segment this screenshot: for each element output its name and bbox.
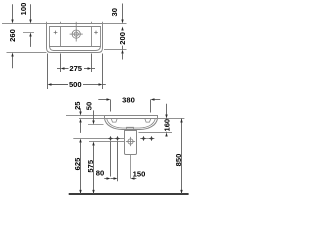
left overflow mark under deck xyxy=(111,119,117,123)
svg-text:50: 50 xyxy=(85,102,94,110)
mounting hole line right xyxy=(140,138,155,140)
svg-text:200: 200 xyxy=(118,32,127,45)
svg-text:500: 500 xyxy=(69,80,82,89)
dim 25 / 625 line (x=80.5) xyxy=(79,108,81,194)
deck-bottom extension line right xyxy=(158,118,185,120)
svg-text:160: 160 xyxy=(162,119,171,132)
basin-front extension line left xyxy=(7,52,47,54)
dim 100 line (x=30.5) xyxy=(29,4,31,47)
siphon cover / pedestal xyxy=(125,131,137,155)
dim 275 xyxy=(57,54,95,73)
mounting hole line left xyxy=(73,138,124,140)
rim-50 extension line left xyxy=(88,124,104,126)
tap hole crosshair (plan) xyxy=(70,22,83,42)
svg-text:25: 25 xyxy=(73,101,82,110)
divider tick marks above rim xyxy=(60,22,62,24)
mounting hole marks (4 crosses) xyxy=(108,136,153,140)
deck divider left xyxy=(60,27,62,47)
drain collar xyxy=(127,127,134,130)
deck divider right xyxy=(91,27,93,47)
deck slab (front) xyxy=(105,116,158,119)
tap-level extension line xyxy=(23,32,34,34)
svg-text:575: 575 xyxy=(86,159,95,172)
deck-top extension line left xyxy=(66,115,105,117)
right overflow mark under deck xyxy=(145,119,151,123)
dim 260 line (x=12.5) xyxy=(11,4,13,68)
dim 850 (x=181.5) xyxy=(180,119,182,194)
svg-text:80: 80 xyxy=(96,168,104,177)
basin outer rim (plan) xyxy=(47,24,103,53)
svg-text:275: 275 xyxy=(69,64,82,73)
siphon crosshair (front) xyxy=(126,137,135,146)
basin inner deck line (plan) xyxy=(50,27,101,47)
dim 80 / 150 row (y=178.5) xyxy=(104,142,136,182)
wall extension line left xyxy=(2,23,47,25)
deck-bottom extension line left xyxy=(79,118,105,120)
wall extension line right xyxy=(103,23,127,25)
svg-text:380: 380 xyxy=(122,96,135,105)
siphon centre extension line left xyxy=(89,141,125,143)
160 reference line right xyxy=(139,132,173,134)
basin rim inner front line (plan) xyxy=(50,46,101,51)
svg-text:260: 260 xyxy=(8,29,17,42)
dim 500 xyxy=(48,54,106,90)
dim 30 / 200 line (x=122.5) xyxy=(121,4,123,60)
drain center line below pedestal xyxy=(130,155,132,179)
right fixing cross (plan) xyxy=(94,31,98,35)
bowl outer curve xyxy=(105,119,158,130)
svg-text:850: 850 xyxy=(174,154,183,167)
bowl inner curve xyxy=(107,119,156,129)
svg-text:100: 100 xyxy=(19,3,28,16)
dim 160 (x=165.5) xyxy=(165,104,167,137)
left fixing cross (plan) xyxy=(54,31,58,35)
bowl-front extension line right xyxy=(104,49,127,51)
floor line xyxy=(69,193,189,195)
dim 50 / 575 line (x=93.5) xyxy=(92,110,94,193)
svg-text:150: 150 xyxy=(133,170,146,179)
svg-text:625: 625 xyxy=(73,157,82,170)
svg-text:30: 30 xyxy=(110,8,119,16)
dim 380 xyxy=(98,98,160,112)
corner tick marks above rim xyxy=(46,22,48,24)
